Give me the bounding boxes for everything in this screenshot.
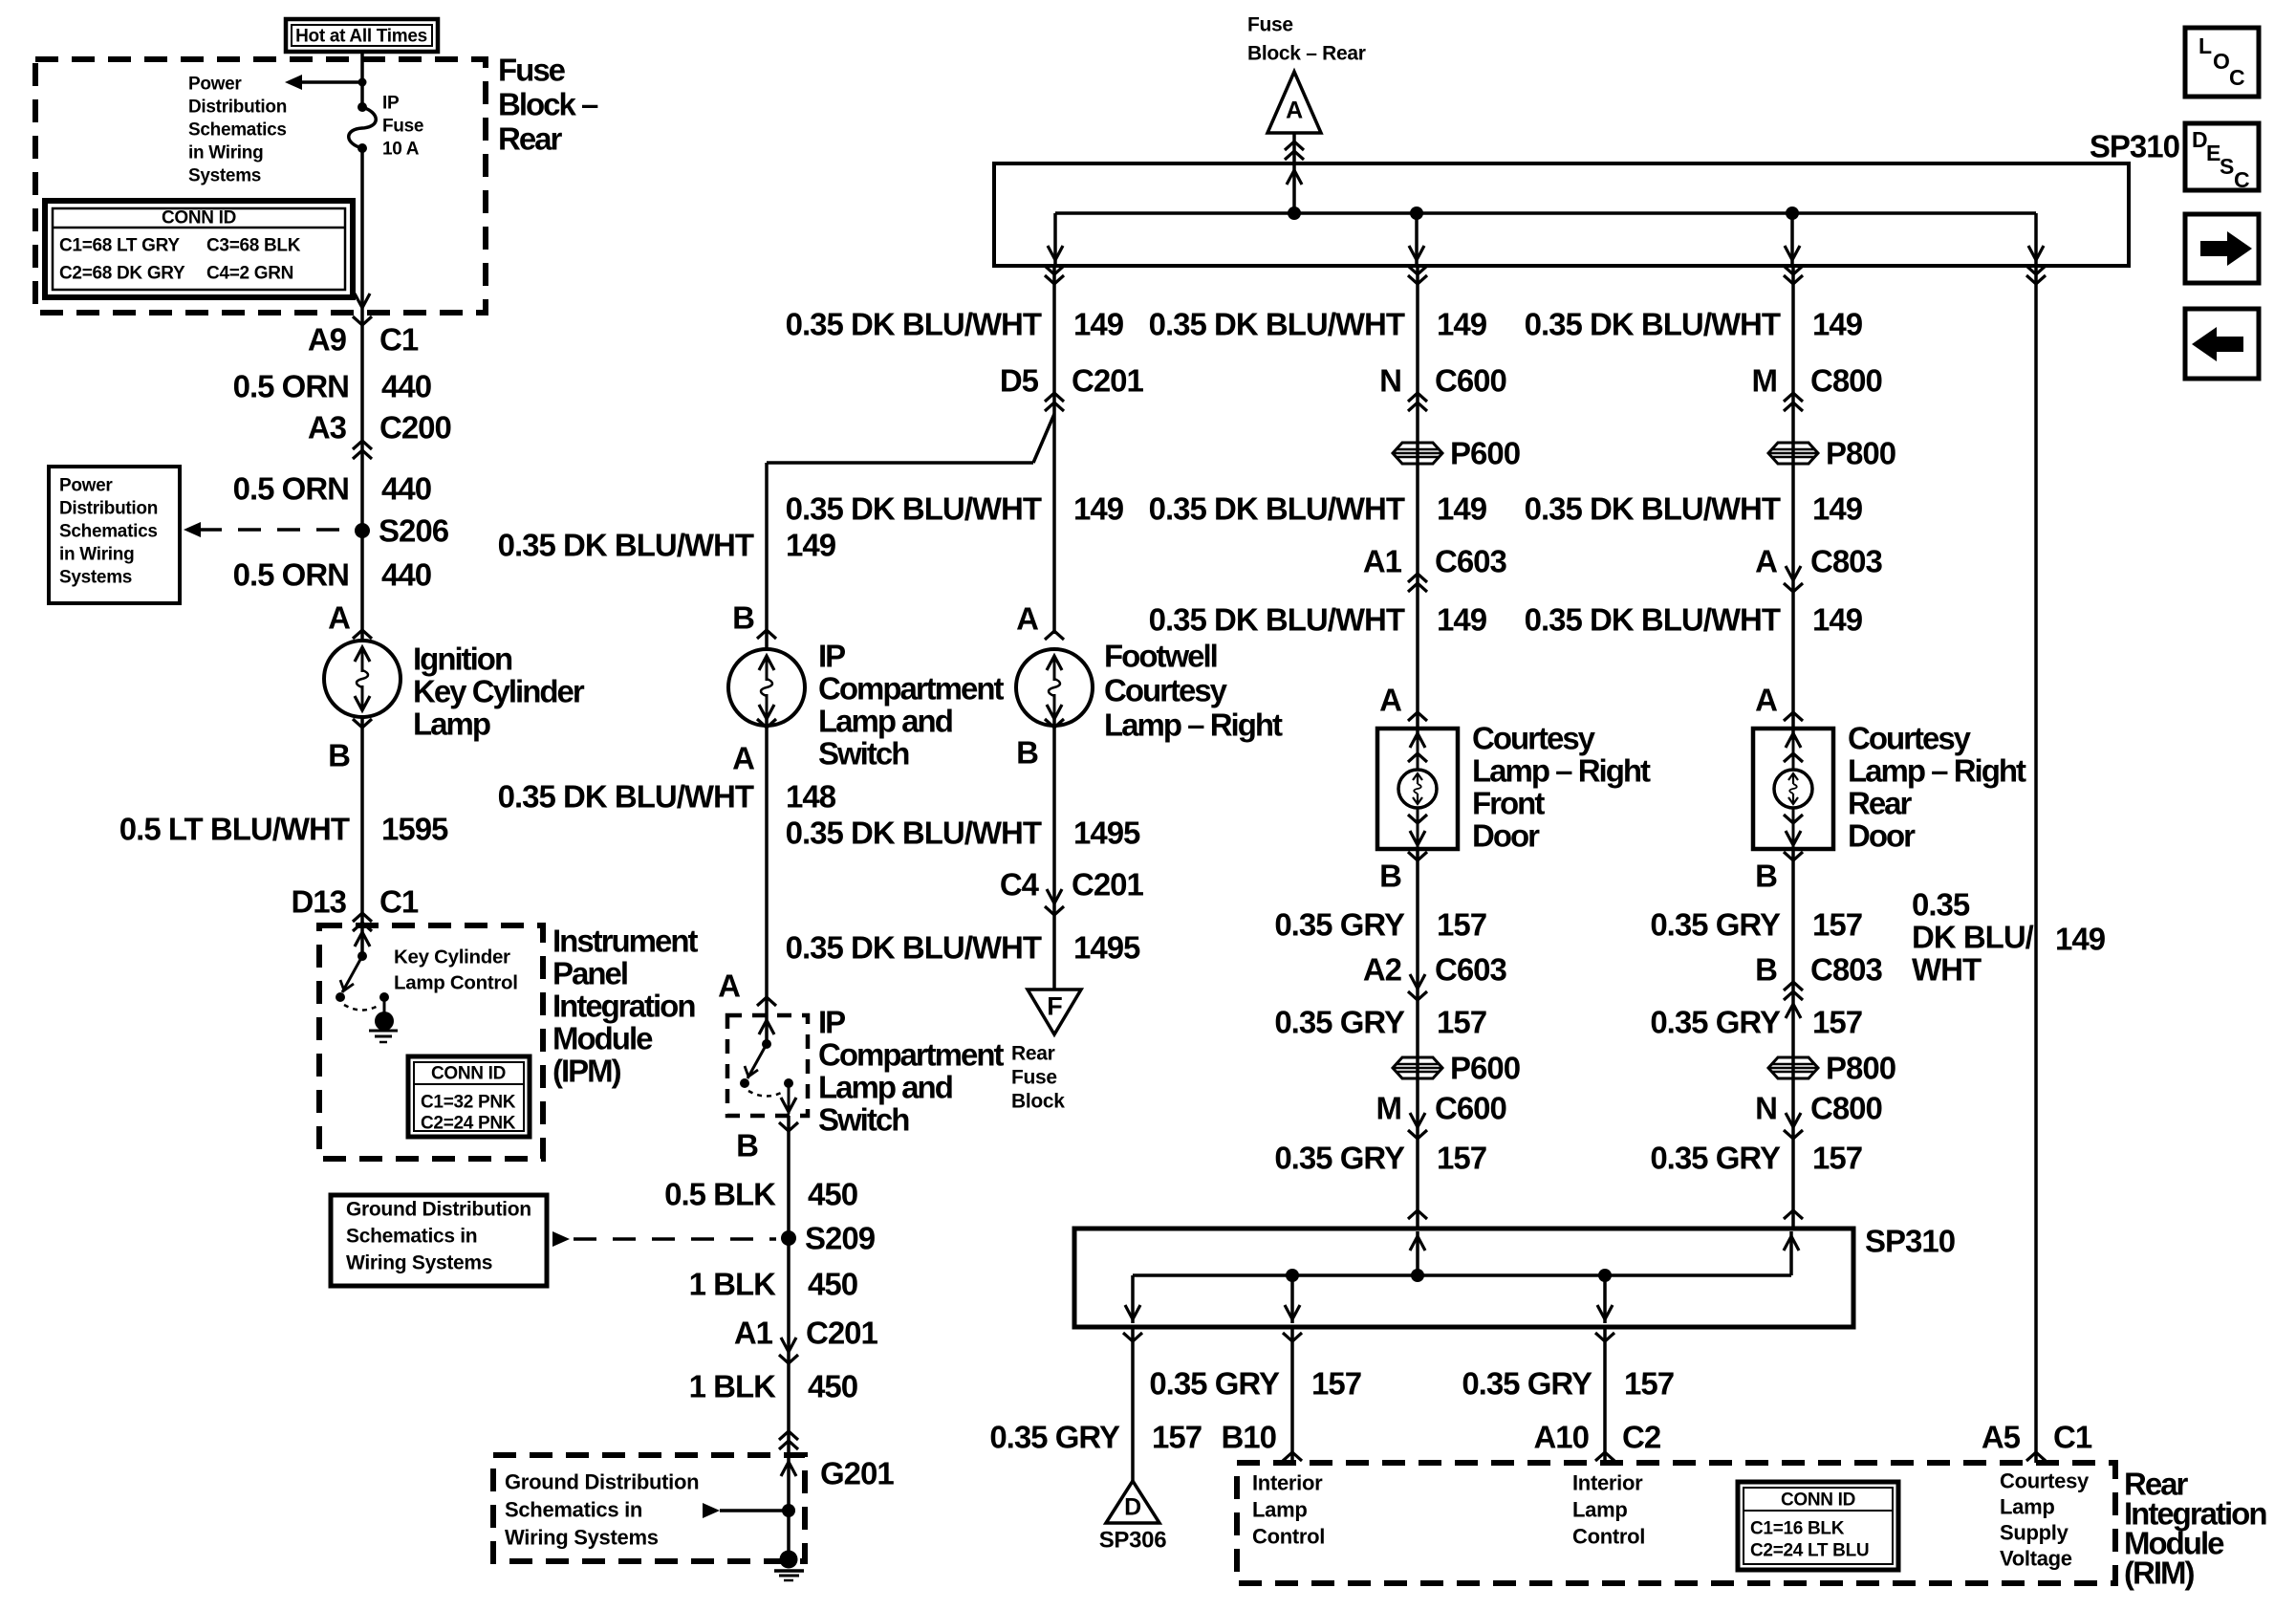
svg-text:Fuse: Fuse: [1011, 1067, 1057, 1089]
Instrument Panel Integration Module dashed box: [319, 925, 543, 1159]
svg-text:Module: Module: [552, 1021, 653, 1056]
svg-text:A: A: [732, 741, 754, 776]
svg-text:440: 440: [381, 369, 431, 404]
svg-text:0.35 DK BLU/WHT: 0.35 DK BLU/WHT: [498, 528, 754, 563]
pin B label: [353, 719, 372, 728]
svg-text:IP: IP: [382, 94, 400, 114]
svg-text:C201: C201: [806, 1316, 878, 1351]
svg-text:D: D: [1124, 1493, 1141, 1520]
svg-text:Power: Power: [188, 75, 242, 95]
svg-text:in Wiring: in Wiring: [188, 143, 263, 163]
svg-text:C2=24 LT BLU: C2=24 LT BLU: [1750, 1541, 1869, 1561]
svg-text:C3=68 BLK: C3=68 BLK: [206, 236, 301, 256]
switch: Key Cylinder Lamp Control: [360, 925, 364, 956]
svg-text:C600: C600: [1435, 1091, 1506, 1126]
splice S209: [781, 1230, 796, 1246]
svg-text:157: 157: [1311, 1366, 1361, 1402]
svg-text:C201: C201: [1072, 867, 1144, 903]
svg-text:C1: C1: [379, 322, 419, 358]
svg-text:149: 149: [1812, 307, 1863, 342]
svg-text:A2: A2: [1363, 952, 1402, 988]
Rear Integration Module dashed box: [1237, 1463, 2115, 1583]
svg-text:450: 450: [808, 1369, 857, 1404]
svg-text:Courtesy: Courtesy: [1472, 721, 1596, 756]
svg-text:149: 149: [1812, 602, 1863, 638]
wire 149 from SP310 to footwell lamp: [1052, 266, 1056, 634]
svg-text:157: 157: [1437, 1005, 1486, 1040]
svg-text:0.35 DK BLU/WHT: 0.35 DK BLU/WHT: [1525, 491, 1781, 527]
svg-text:Lamp – Right: Lamp – Right: [1472, 753, 1651, 789]
wire: Hot at All Times feed box: [286, 19, 438, 52]
svg-text:0.35 GRY: 0.35 GRY: [1274, 1005, 1405, 1040]
pass-through connector P600 (lower): [1393, 1057, 1442, 1078]
svg-text:B: B: [732, 600, 754, 636]
svg-text:(RIM): (RIM): [2124, 1556, 2194, 1591]
svg-text:149: 149: [1812, 491, 1863, 527]
svg-text:149: 149: [1437, 491, 1487, 527]
svg-text:0.35 GRY: 0.35 GRY: [1274, 1141, 1405, 1176]
ground symbol inside IPM: [375, 1012, 394, 1031]
svg-text:B10: B10: [1221, 1420, 1276, 1455]
svg-text:C600: C600: [1435, 363, 1506, 399]
svg-text:P600: P600: [1450, 436, 1520, 471]
svg-text:WHT: WHT: [1912, 952, 1982, 988]
svg-text:Control: Control: [1572, 1525, 1645, 1549]
reference arrow inside G201: [703, 1503, 720, 1518]
svg-text:D5: D5: [1000, 363, 1039, 399]
svg-text:Schematics: Schematics: [59, 522, 158, 542]
svg-text:C2=68 DK GRY: C2=68 DK GRY: [59, 264, 185, 284]
wire 149 from SP310 (Front door column): [1416, 266, 1419, 740]
svg-text:SP310: SP310: [2090, 129, 2179, 164]
svg-text:C1=68 LT GRY: C1=68 LT GRY: [59, 236, 180, 256]
wire 450 to S209 and G201: [787, 1116, 791, 1455]
lamp: Courtesy Lamp - Right Rear Door: [1753, 729, 1833, 849]
svg-text:A: A: [718, 968, 740, 1004]
pin A of IP compartment lamp: [757, 719, 776, 728]
svg-text:Interior: Interior: [1252, 1471, 1323, 1495]
svg-text:1 BLK: 1 BLK: [689, 1369, 777, 1404]
svg-text:0.35 DK BLU/WHT: 0.35 DK BLU/WHT: [1525, 602, 1781, 638]
svg-text:P800: P800: [1826, 436, 1895, 471]
svg-text:Ground Distribution: Ground Distribution: [346, 1199, 531, 1221]
svg-text:B: B: [1016, 735, 1038, 771]
svg-text:F: F: [1047, 992, 1062, 1021]
svg-text:C4=2 GRN: C4=2 GRN: [206, 264, 293, 284]
lamp: Footwell Courtesy Lamp - Right: [1016, 649, 1093, 726]
svg-text:Rear: Rear: [498, 121, 563, 157]
svg-text:(IPM): (IPM): [552, 1054, 621, 1089]
CONN ID table (RIM): [1738, 1482, 1898, 1570]
Fuse Block - Rear module dashed box: [35, 59, 486, 313]
svg-text:Door: Door: [1848, 818, 1916, 854]
svg-text:0.35 GRY: 0.35 GRY: [1274, 907, 1405, 943]
pin B of door lamp: [1784, 852, 1803, 860]
svg-text:Hot at All Times: Hot at All Times: [295, 27, 427, 47]
svg-text:0.5 BLK: 0.5 BLK: [664, 1177, 776, 1212]
wire branch 149 to D5 C201: [767, 461, 1033, 465]
svg-text:S206: S206: [379, 513, 449, 549]
splice SP310 bus (lower): [1074, 1229, 1853, 1327]
svg-text:0.35 GRY: 0.35 GRY: [989, 1420, 1120, 1455]
svg-text:149: 149: [2055, 922, 2106, 957]
wire 157 to SP306: [1131, 1327, 1135, 1481]
lamp: Ignition Key Cylinder Lamp: [324, 641, 401, 717]
svg-text:0.35 DK BLU/WHT: 0.35 DK BLU/WHT: [498, 779, 754, 815]
svg-text:Courtesy: Courtesy: [2000, 1469, 2090, 1493]
svg-text:157: 157: [1812, 1005, 1862, 1040]
pass-through connector P600 (upper): [1393, 443, 1442, 464]
svg-text:0.35 GRY: 0.35 GRY: [1149, 1366, 1280, 1402]
svg-text:149: 149: [1437, 602, 1487, 638]
wire 148 from lamp to switch: [765, 717, 769, 1015]
svg-text:Supply: Supply: [2000, 1521, 2069, 1545]
svg-text:0.35: 0.35: [1912, 887, 1970, 923]
svg-text:0.35 GRY: 0.35 GRY: [1650, 907, 1781, 943]
svg-text:157: 157: [1624, 1366, 1674, 1402]
svg-text:Lamp and: Lamp and: [818, 704, 952, 739]
svg-text:S: S: [2220, 154, 2234, 179]
svg-text:0.35 DK BLU/WHT: 0.35 DK BLU/WHT: [786, 930, 1042, 966]
svg-text:O: O: [2213, 49, 2230, 74]
arrow to Power Distribution Schematics reference: [300, 80, 362, 84]
ground symbol G201: [780, 1551, 798, 1569]
svg-text:1 BLK: 1 BLK: [689, 1267, 777, 1302]
svg-text:0.35 DK BLU/WHT: 0.35 DK BLU/WHT: [786, 307, 1042, 342]
CONN ID table (IPM): [408, 1056, 530, 1137]
svg-text:Lamp Control: Lamp Control: [394, 972, 518, 994]
lamp: IP Compartment Lamp and Switch (bulb): [728, 649, 805, 726]
svg-text:Panel: Panel: [552, 956, 627, 991]
svg-text:Courtesy: Courtesy: [1848, 721, 1972, 756]
svg-text:0.5 ORN: 0.5 ORN: [233, 369, 349, 404]
svg-text:C4: C4: [1000, 867, 1040, 903]
svg-text:440: 440: [381, 471, 431, 507]
wire 157 to RIM A10: [1603, 1327, 1607, 1463]
wire 440 leaving fuse block: [360, 148, 364, 641]
svg-text:G201: G201: [820, 1456, 894, 1491]
svg-text:A10: A10: [1533, 1420, 1589, 1455]
pin B below switch: [779, 1122, 798, 1131]
svg-text:0.35 DK BLU/WHT: 0.35 DK BLU/WHT: [786, 816, 1042, 851]
svg-text:S209: S209: [805, 1221, 876, 1256]
svg-text:Schematics: Schematics: [188, 120, 287, 141]
CONN ID table C1/C2/C3/C4 (fuse block): [45, 201, 353, 297]
svg-text:Lamp – Right: Lamp – Right: [1104, 707, 1283, 743]
svg-text:CONN ID: CONN ID: [1781, 1490, 1855, 1511]
svg-text:149: 149: [1073, 307, 1124, 342]
svg-text:N: N: [1755, 1091, 1777, 1126]
svg-text:157: 157: [1812, 1141, 1862, 1176]
svg-text:C1=16 BLK: C1=16 BLK: [1750, 1519, 1845, 1539]
icon back arrow box: [2185, 309, 2259, 379]
wire 157 down from door lamp: [1791, 849, 1795, 1229]
triangle F: Rear Fuse Block reference: [1028, 990, 1081, 1034]
svg-text:Voltage: Voltage: [2000, 1547, 2072, 1571]
svg-text:Integration: Integration: [552, 989, 695, 1024]
svg-text:Key Cylinder: Key Cylinder: [413, 674, 585, 709]
svg-text:0.35 GRY: 0.35 GRY: [1650, 1005, 1781, 1040]
pin B of footwell lamp: [1045, 719, 1064, 728]
svg-text:Lamp: Lamp: [1252, 1498, 1307, 1522]
svg-text:B: B: [328, 738, 350, 773]
svg-text:CONN ID: CONN ID: [431, 1064, 506, 1084]
splice SP310 bus (upper): [994, 163, 2129, 266]
svg-text:Control: Control: [1252, 1525, 1325, 1549]
svg-text:Fuse: Fuse: [382, 117, 423, 137]
svg-text:in Wiring: in Wiring: [59, 545, 134, 565]
wire 157 to RIM B10: [1290, 1327, 1294, 1463]
svg-text:450: 450: [808, 1267, 857, 1302]
svg-text:0.35 GRY: 0.35 GRY: [1462, 1366, 1592, 1402]
svg-text:A3: A3: [308, 410, 347, 446]
wire 149 down to IP compartment lamp: [765, 463, 769, 649]
svg-text:0.35 GRY: 0.35 GRY: [1650, 1141, 1781, 1176]
svg-text:Schematics in: Schematics in: [505, 1498, 642, 1522]
svg-text:C: C: [2234, 167, 2249, 192]
svg-text:DK BLU/: DK BLU/: [1912, 920, 2034, 955]
svg-text:Lamp – Right: Lamp – Right: [1848, 753, 2026, 789]
svg-text:C603: C603: [1435, 544, 1507, 579]
svg-text:Lamp: Lamp: [1572, 1498, 1627, 1522]
svg-text:C603: C603: [1435, 952, 1507, 988]
svg-text:Distribution: Distribution: [59, 499, 158, 519]
wire 149 courtesy lamp supply voltage to RIM: [2034, 266, 2038, 1463]
svg-text:Front: Front: [1472, 786, 1545, 821]
svg-text:0.35 DK BLU/WHT: 0.35 DK BLU/WHT: [1525, 307, 1781, 342]
svg-text:N: N: [1379, 363, 1401, 399]
pin B of door lamp: [1408, 852, 1427, 860]
svg-text:Fuse: Fuse: [1247, 14, 1293, 36]
svg-text:Fuse: Fuse: [498, 53, 566, 88]
svg-text:C800: C800: [1810, 1091, 1882, 1126]
svg-text:C803: C803: [1810, 544, 1883, 579]
svg-text:C1: C1: [379, 884, 419, 920]
svg-text:Switch: Switch: [818, 736, 909, 772]
svg-text:Ground Distribution: Ground Distribution: [505, 1470, 699, 1494]
svg-text:0.35 DK BLU/WHT: 0.35 DK BLU/WHT: [1149, 491, 1405, 527]
svg-text:B: B: [1379, 859, 1401, 894]
svg-text:Schematics in: Schematics in: [346, 1226, 477, 1248]
svg-text:A1: A1: [734, 1316, 773, 1351]
svg-text:450: 450: [808, 1177, 857, 1212]
svg-text:Rear: Rear: [1011, 1043, 1055, 1065]
svg-text:IP: IP: [818, 639, 845, 674]
svg-text:1495: 1495: [1073, 930, 1140, 966]
svg-text:C803: C803: [1810, 952, 1883, 988]
icon DESC box: [2185, 123, 2259, 190]
Ground Distribution Schematics reference box: [331, 1195, 547, 1286]
svg-text:D: D: [2192, 127, 2207, 152]
svg-text:157: 157: [1812, 907, 1862, 943]
svg-text:A: A: [328, 600, 350, 636]
svg-text:B: B: [1755, 952, 1777, 988]
pass-through connector P800 (upper): [1768, 443, 1818, 464]
switch: IP Compartment Lamp and Switch dashed box: [727, 1015, 808, 1116]
svg-text:P600: P600: [1450, 1051, 1520, 1086]
svg-text:M: M: [1752, 363, 1778, 399]
svg-text:L: L: [2199, 33, 2212, 58]
svg-text:B: B: [1755, 859, 1777, 894]
svg-text:A: A: [1016, 601, 1038, 637]
svg-text:A: A: [1755, 683, 1777, 718]
svg-text:C: C: [2229, 65, 2244, 90]
svg-text:Systems: Systems: [188, 166, 261, 186]
svg-text:C1=32 PNK: C1=32 PNK: [421, 1093, 516, 1113]
svg-text:B: B: [736, 1128, 758, 1164]
svg-text:Door: Door: [1472, 818, 1540, 854]
svg-text:C201: C201: [1072, 363, 1144, 399]
svg-text:A1: A1: [1363, 544, 1402, 579]
svg-text:C2=24 PNK: C2=24 PNK: [421, 1114, 516, 1134]
svg-text:0.35 DK BLU/WHT: 0.35 DK BLU/WHT: [1149, 307, 1405, 342]
Power Distribution Schematics reference box (left): [49, 467, 180, 603]
splice S206: [355, 523, 370, 538]
svg-text:A: A: [1286, 98, 1303, 124]
svg-text:0.5 ORN: 0.5 ORN: [233, 557, 349, 593]
svg-text:Power: Power: [59, 476, 113, 496]
svg-text:Block –: Block –: [498, 87, 598, 122]
svg-text:Lamp and: Lamp and: [818, 1070, 952, 1105]
wire 157 down from door lamp: [1416, 849, 1419, 1229]
svg-text:0.5 LT BLU/WHT: 0.5 LT BLU/WHT: [119, 812, 350, 847]
svg-text:P800: P800: [1826, 1051, 1895, 1086]
icon forward arrow box: [2185, 214, 2259, 283]
svg-text:1495: 1495: [1073, 816, 1140, 851]
wire 149 from SP310 (Rear door column): [1791, 266, 1795, 740]
svg-text:D13: D13: [291, 884, 346, 920]
pass-through connector P800 (lower): [1768, 1057, 1818, 1078]
dashed reference arrow to S206: [199, 528, 355, 532]
svg-text:Key Cylinder: Key Cylinder: [394, 946, 510, 968]
svg-text:Lamp: Lamp: [2000, 1495, 2054, 1519]
svg-text:Rear: Rear: [1848, 786, 1913, 821]
svg-text:Switch: Switch: [818, 1102, 909, 1138]
svg-text:Ignition: Ignition: [413, 642, 512, 677]
svg-text:Systems: Systems: [59, 568, 132, 588]
triangle D: SP306 reference: [1106, 1481, 1159, 1523]
svg-text:Footwell: Footwell: [1104, 639, 1217, 674]
ground G201 dashed box: [493, 1455, 805, 1561]
svg-text:C800: C800: [1810, 363, 1882, 399]
lamp: Courtesy Lamp - Right Front Door: [1377, 729, 1458, 849]
svg-text:10 A: 10 A: [382, 140, 420, 160]
svg-text:Compartment: Compartment: [818, 671, 1005, 707]
svg-text:IP: IP: [818, 1005, 845, 1040]
svg-text:157: 157: [1437, 907, 1486, 943]
svg-text:Lamp: Lamp: [413, 707, 490, 742]
node: junction at fuse feed: [358, 78, 367, 87]
wire 1495 to rear fuse block: [1052, 717, 1056, 989]
wire from Hot at All Times into fuse block: [360, 52, 364, 107]
svg-text:C200: C200: [379, 410, 451, 446]
svg-text:0.5 ORN: 0.5 ORN: [233, 471, 349, 507]
svg-text:149: 149: [1073, 491, 1124, 527]
svg-text:Interior: Interior: [1572, 1471, 1643, 1495]
svg-text:CONN ID: CONN ID: [162, 208, 236, 228]
svg-text:148: 148: [786, 779, 836, 815]
svg-text:440: 440: [381, 557, 431, 593]
icon LOC box: [2185, 28, 2259, 97]
svg-text:Courtesy: Courtesy: [1104, 673, 1228, 708]
svg-text:Wiring Systems: Wiring Systems: [505, 1526, 659, 1550]
svg-text:Instrument: Instrument: [552, 924, 699, 959]
svg-text:A: A: [1755, 544, 1777, 579]
svg-text:Compartment: Compartment: [818, 1037, 1005, 1073]
svg-text:1595: 1595: [381, 812, 448, 847]
svg-text:SP306: SP306: [1099, 1528, 1167, 1554]
dashed reference arrow to S209: [552, 1231, 570, 1247]
svg-text:A9: A9: [308, 322, 347, 358]
svg-text:Block – Rear: Block – Rear: [1247, 43, 1366, 65]
svg-text:149: 149: [1437, 307, 1487, 342]
svg-text:Distribution: Distribution: [188, 98, 287, 118]
svg-text:0.35 DK BLU/WHT: 0.35 DK BLU/WHT: [786, 491, 1042, 527]
svg-text:A: A: [1379, 683, 1401, 718]
svg-text:Block: Block: [1011, 1091, 1065, 1113]
svg-text:A5: A5: [1982, 1420, 2021, 1455]
svg-text:Wiring Systems: Wiring Systems: [346, 1252, 492, 1274]
svg-text:E: E: [2206, 141, 2220, 165]
svg-text:M: M: [1376, 1091, 1402, 1126]
svg-text:157: 157: [1152, 1420, 1202, 1455]
fuse F: IP Fuse 10 A: [357, 102, 367, 112]
svg-text:C1: C1: [2053, 1420, 2092, 1455]
svg-text:157: 157: [1437, 1141, 1486, 1176]
svg-text:0.35 DK BLU/WHT: 0.35 DK BLU/WHT: [1149, 602, 1405, 638]
wire 1595 to IPM: [360, 717, 364, 925]
svg-text:SP310: SP310: [1865, 1224, 1955, 1259]
svg-text:149: 149: [786, 528, 836, 563]
svg-text:C2: C2: [1622, 1420, 1661, 1455]
